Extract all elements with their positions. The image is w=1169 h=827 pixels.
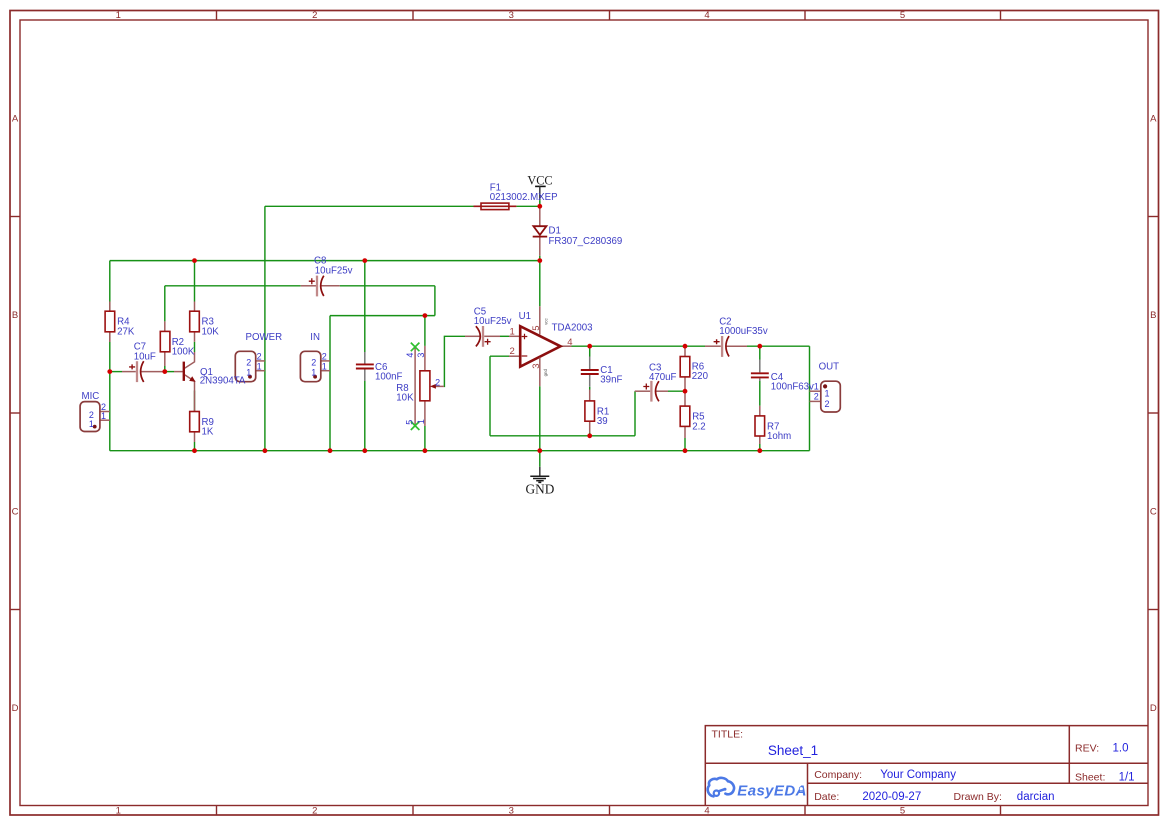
capacitor C1 plates <box>581 370 599 374</box>
pin U1 2 <box>509 355 520 357</box>
svg-text:1: 1 <box>510 326 515 337</box>
VCC net flag <box>527 174 552 207</box>
wire left column (R4/MIC) <box>109 261 111 451</box>
svg-text:3: 3 <box>509 10 514 21</box>
wire R3 column top <box>194 261 196 302</box>
svg-text:100nF63v: 100nF63v <box>771 382 814 393</box>
connector IN <box>300 351 320 381</box>
pin D1 top <box>539 206 541 226</box>
svg-text:B: B <box>1150 310 1156 321</box>
connector OUT <box>821 381 841 412</box>
pin IN 1 <box>322 370 331 372</box>
node R8 top <box>423 313 428 318</box>
node gnd POWER <box>263 448 268 453</box>
pin R4 top <box>109 302 111 312</box>
wire top rail <box>110 260 540 262</box>
resistor R9 <box>190 412 200 432</box>
svg-text:5: 5 <box>900 806 905 817</box>
wires <box>110 206 810 467</box>
svg-text:10K: 10K <box>396 393 414 404</box>
svg-text:Sheet:: Sheet: <box>1075 771 1105 783</box>
pin R6 bottom <box>684 377 686 391</box>
wire U1 pin2 loop down <box>489 356 491 436</box>
wire U1 pin3 to ground rail <box>539 386 541 451</box>
diode D1 <box>533 226 548 236</box>
no-connect X on R8 pin4 <box>411 343 420 352</box>
pin C5 right <box>484 335 500 337</box>
pin C8 right <box>321 285 340 287</box>
wire IN column <box>329 316 331 451</box>
pin R4 bottom <box>109 332 111 342</box>
svg-text:C: C <box>12 507 19 518</box>
wire R7 to ground rail <box>759 444 761 451</box>
svg-text:A: A <box>1150 114 1157 125</box>
connector MIC pin1 dot <box>93 425 97 429</box>
node top rail R3 <box>192 258 197 263</box>
wire R8 wiper to C5 <box>444 336 465 386</box>
svg-text:MIC: MIC <box>82 391 100 402</box>
pin C2 right <box>726 345 747 347</box>
junction dots <box>107 204 762 453</box>
transistor Q1 base bar <box>183 362 185 381</box>
wire POWER column vertical <box>264 206 266 450</box>
wire OUT column <box>809 346 811 451</box>
wire C3 to R6/R5 node <box>668 390 685 392</box>
pin R1 top <box>589 390 591 401</box>
wire bottom ground rail <box>110 450 810 452</box>
svg-text:VCC: VCC <box>527 174 552 188</box>
capacitor C3 plus <box>643 384 649 390</box>
pin Q1 collector <box>185 352 195 368</box>
pin C8 left <box>301 285 317 287</box>
svg-text:2: 2 <box>246 358 251 368</box>
capacitor C3 plates <box>651 381 659 402</box>
node C7 right <box>162 369 167 374</box>
connector IN pin1 dot <box>313 375 317 379</box>
node top rail C6 <box>362 258 367 263</box>
resistor R2 <box>160 331 170 351</box>
wire D1 bottom to top rail <box>539 256 541 261</box>
wire R1 to feedback rail <box>589 433 591 436</box>
svg-text:5: 5 <box>531 326 542 331</box>
fuse F1 <box>474 203 517 210</box>
pin U1 5 <box>539 306 541 334</box>
svg-text:D: D <box>1150 703 1157 714</box>
svg-text:39: 39 <box>597 416 608 427</box>
svg-text:10uF: 10uF <box>134 351 156 362</box>
node top rail D1 <box>537 258 542 263</box>
wire C1 column top <box>589 346 591 356</box>
resistor R3 <box>190 311 200 332</box>
pin OUT 2 <box>810 400 821 402</box>
wire mid rail C8 left part <box>165 285 301 287</box>
svg-text:1: 1 <box>89 419 94 429</box>
pin R8 wiper <box>434 385 444 387</box>
pin U1 4 <box>561 345 572 347</box>
pin C4 bottom <box>759 378 761 381</box>
node out rail C4 <box>757 344 762 349</box>
svg-text:Your Company: Your Company <box>880 769 956 781</box>
pin POWER 2 <box>256 360 265 362</box>
svg-text:4: 4 <box>704 806 709 817</box>
op-amp U1 minus input mark <box>522 355 528 357</box>
svg-text:100K: 100K <box>172 346 195 357</box>
svg-text:1: 1 <box>814 381 819 391</box>
pin POWER 1 <box>256 370 265 372</box>
node feedback C1 <box>587 433 592 438</box>
wire C5 to U1 pin1 <box>500 335 509 337</box>
pin R7 top <box>759 406 761 416</box>
wire fuse-right to VCC node <box>516 205 539 207</box>
svg-text:FR307_C280369: FR307_C280369 <box>549 236 623 247</box>
pin U1 1 <box>509 335 520 337</box>
wire U1 pin5 column <box>539 261 541 307</box>
node VCC/fuse <box>537 204 542 209</box>
svg-text:100nF: 100nF <box>375 372 403 383</box>
svg-text:2: 2 <box>312 10 317 21</box>
svg-text:darcian: darcian <box>1017 791 1055 803</box>
capacitor C8 plus <box>309 278 315 284</box>
capacitor C5 plus <box>485 339 491 345</box>
svg-text:220: 220 <box>692 371 709 382</box>
op-amp U1 plus input mark <box>522 334 528 340</box>
svg-text:39nF: 39nF <box>600 375 622 386</box>
wire output rail right <box>747 345 810 347</box>
svg-text:1.0: 1.0 <box>1113 743 1129 755</box>
capacitor C2 plates <box>722 336 729 357</box>
svg-text:A: A <box>12 114 19 125</box>
svg-text:1/1: 1/1 <box>1119 771 1135 783</box>
svg-text:1: 1 <box>416 419 426 424</box>
pin C3 right <box>656 390 668 392</box>
pin C7 right <box>141 371 165 373</box>
pin R2 top <box>164 321 166 331</box>
op-amp U1 <box>520 326 560 366</box>
svg-text:1: 1 <box>246 367 251 377</box>
pin R9 top <box>194 391 196 412</box>
pin C6 bottom <box>364 369 366 381</box>
wire output rail left <box>572 345 706 347</box>
resistor R7 <box>755 416 765 436</box>
svg-text:3: 3 <box>509 806 514 817</box>
grey pins <box>365 352 760 387</box>
svg-text:27K: 27K <box>117 326 135 337</box>
svg-text:OUT: OUT <box>819 361 840 372</box>
wire feedback rail <box>490 435 635 437</box>
svg-text:2: 2 <box>510 346 515 357</box>
pin R8 1 <box>424 401 426 426</box>
svg-text:B: B <box>12 310 18 321</box>
svg-text:Sheet_1: Sheet_1 <box>768 743 818 758</box>
pin C3 left <box>635 390 650 392</box>
svg-text:2: 2 <box>312 806 317 817</box>
pin R8 track <box>414 347 416 426</box>
svg-text:1: 1 <box>116 806 121 817</box>
capacitor C7 plus <box>129 364 135 369</box>
node C7 left <box>107 369 112 374</box>
wire R9 to ground rail <box>194 442 196 451</box>
capacitor C6 plates <box>356 364 374 368</box>
TITLE BLOCK <box>705 726 1148 806</box>
pin C5 left <box>465 335 480 337</box>
wire R8 pin3 column <box>424 316 426 346</box>
labels <box>82 182 840 442</box>
GND symbol <box>530 467 549 483</box>
pin R9 bottom <box>194 432 196 442</box>
wire Q1 emitter to R9 <box>194 391 196 412</box>
svg-text:IN: IN <box>310 332 320 343</box>
pin IN 2 <box>322 360 331 362</box>
pin MIC 2 <box>100 411 110 413</box>
capacitor C7 plates <box>137 361 144 382</box>
wire C4 column top <box>759 346 761 359</box>
svg-text:Drawn By:: Drawn By: <box>954 791 1002 803</box>
node gnd C6 <box>362 448 367 453</box>
pin C7 left <box>122 371 136 373</box>
svg-text:GND: GND <box>525 481 554 496</box>
svg-text:2: 2 <box>311 358 316 368</box>
svg-text:TITLE:: TITLE: <box>712 729 744 741</box>
wire C7 to node <box>165 371 174 373</box>
pin C4 top <box>759 360 761 373</box>
capacitor C5 plates <box>476 326 483 347</box>
svg-text:D1: D1 <box>549 225 561 236</box>
svg-text:10uF25v: 10uF25v <box>474 316 512 327</box>
svg-text:1: 1 <box>257 361 262 371</box>
pin C2 left <box>705 345 721 347</box>
wire C6 column top <box>364 261 366 352</box>
potentiometer R8 body <box>420 371 430 401</box>
svg-text:C: C <box>1150 507 1157 518</box>
wire R2 bottom to node <box>164 366 166 372</box>
node C3/R5 <box>683 389 688 394</box>
wire ground stem <box>539 451 541 467</box>
connector POWER <box>235 351 255 381</box>
svg-text:0213002.MXEP: 0213002.MXEP <box>490 192 558 203</box>
wire R8 pin1 to ground rail <box>424 426 426 451</box>
svg-text:TDA2003: TDA2003 <box>552 323 593 334</box>
node out rail R6 <box>683 344 688 349</box>
node gnd R9 <box>192 448 197 453</box>
pin OUT 1 <box>810 390 821 392</box>
svg-text:4: 4 <box>567 337 572 348</box>
resistor R1 <box>585 401 595 421</box>
pin R7 bottom <box>759 436 761 444</box>
svg-text:470uF: 470uF <box>649 372 677 383</box>
svg-text:1000uF35v: 1000uF35v <box>719 326 768 337</box>
svg-text:vcc: vcc <box>543 318 548 325</box>
svg-text:3: 3 <box>531 364 542 369</box>
pin D1 bottom <box>539 237 541 256</box>
pin R3 top <box>194 302 196 312</box>
resistor R4 <box>105 311 115 332</box>
node gnd R5 <box>683 448 688 453</box>
pin C1 bottom <box>589 375 591 387</box>
wire C6 column bottom <box>364 381 366 451</box>
svg-text:1: 1 <box>311 367 316 377</box>
resistor R5 <box>680 406 690 426</box>
node out rail C1 <box>587 344 592 349</box>
svg-text:2: 2 <box>814 392 819 402</box>
wire C1/R1 gap <box>589 387 591 390</box>
svg-text:Date:: Date: <box>814 791 839 803</box>
svg-text:1: 1 <box>101 411 106 421</box>
pin Q1 base <box>174 371 183 373</box>
svg-text:3: 3 <box>416 353 426 358</box>
svg-text:4: 4 <box>405 353 415 358</box>
svg-text:EasyEDA: EasyEDA <box>737 782 807 799</box>
pin R2 bottom <box>164 352 166 366</box>
pin C1 top <box>589 357 591 370</box>
connector POWER pin1 dot <box>248 375 252 379</box>
connector OUT pin1 dot <box>823 384 827 388</box>
no-connect X on R8 pin5 <box>411 421 420 430</box>
wire fuse-left to POWER column <box>265 205 474 207</box>
transistor Q1 emitter arrow <box>189 376 195 382</box>
capacitor C2 plus <box>714 339 720 344</box>
svg-text:2N3904TA: 2N3904TA <box>200 375 246 386</box>
wire C4 to R7 <box>759 381 761 406</box>
wire riser to C3 <box>634 391 636 436</box>
capacitor C4 plates <box>751 373 769 377</box>
wire R2 column <box>164 286 166 322</box>
svg-text:10K: 10K <box>202 326 220 337</box>
resistor R6 <box>680 357 690 377</box>
pin R5 top <box>684 391 686 406</box>
wire riser at R8 to mid rail <box>434 286 436 316</box>
pin R1 bottom <box>589 421 591 432</box>
svg-text:1: 1 <box>116 10 121 21</box>
wire R5 to ground rail <box>684 438 686 451</box>
potentiometer R8 wiper arrow <box>430 384 436 389</box>
svg-text:2: 2 <box>435 377 440 387</box>
svg-text:4: 4 <box>704 10 709 21</box>
svg-text:gnd: gnd <box>543 369 548 377</box>
svg-text:1ohm: 1ohm <box>767 431 791 442</box>
svg-text:1: 1 <box>825 389 830 399</box>
wire R3 to Q1 collector <box>194 342 196 352</box>
pin C6 top <box>364 352 366 364</box>
wire U1 pin2 loop left <box>490 355 509 357</box>
svg-text:1: 1 <box>322 361 327 371</box>
svg-text:2020-09-27: 2020-09-27 <box>862 791 921 803</box>
wire node to C7 <box>110 371 122 373</box>
pins (dull red) <box>100 206 821 444</box>
wire IN row <box>330 315 435 317</box>
pin R5 bottom <box>684 426 686 438</box>
node gnd U1 <box>537 448 542 453</box>
svg-text:5: 5 <box>404 420 414 425</box>
svg-text:1K: 1K <box>202 427 214 438</box>
svg-text:2.2: 2.2 <box>692 421 705 432</box>
svg-text:D: D <box>12 703 19 714</box>
wire mid rail C8 right part <box>340 285 435 287</box>
pin R6 top <box>684 346 686 356</box>
pin Q1 emitter <box>185 375 195 391</box>
svg-text:POWER: POWER <box>246 332 283 343</box>
connector MIC <box>80 402 100 432</box>
svg-text:REV:: REV: <box>1075 743 1099 755</box>
capacitor C8 plates <box>317 276 324 297</box>
svg-text:10uF25v: 10uF25v <box>315 265 353 276</box>
pin MIC 1 <box>100 419 110 421</box>
svg-text:2: 2 <box>825 399 830 409</box>
svg-text:2: 2 <box>322 352 327 362</box>
svg-text:U1: U1 <box>519 311 531 322</box>
svg-text:2: 2 <box>257 352 262 362</box>
node gnd R8 <box>423 448 428 453</box>
pin R3 bottom <box>194 332 196 342</box>
svg-text:Company:: Company: <box>814 769 862 781</box>
pin U1 3 <box>539 358 541 387</box>
node gnd R7 <box>757 448 762 453</box>
node gnd IN <box>328 448 333 453</box>
svg-text:5: 5 <box>900 10 905 21</box>
pin R8 3 <box>424 346 426 371</box>
EasyEDA logo <box>708 778 807 799</box>
